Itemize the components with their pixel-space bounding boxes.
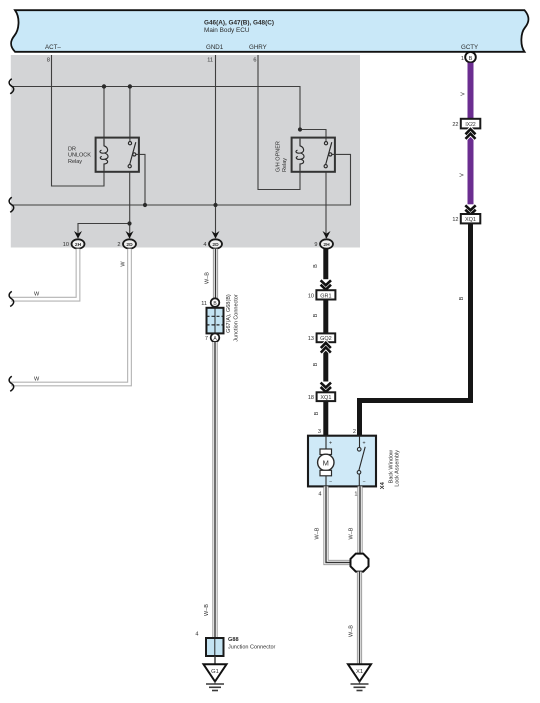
wire GHRY pin6 to GH relay coil [258, 55, 300, 190]
svg-text:2: 2 [117, 242, 120, 248]
wire ACT- pin8 to DR UNLOCK relay coil [52, 55, 105, 186]
svg-text:6: 6 [253, 58, 256, 64]
wire W-B X4 pin 4 to splice [326, 486, 350, 562]
svg-text:X1: X1 [356, 669, 363, 675]
svg-text:B: B [459, 296, 465, 300]
arrow into connector 9 [323, 231, 331, 239]
svg-text:W–B: W–B [205, 272, 211, 284]
ECU internal shield (gray area) [11, 55, 360, 248]
svg-text:Junction Connector: Junction Connector [233, 294, 239, 342]
svg-text:W–B: W–B [315, 527, 321, 539]
wire bus2 ground bus [11, 154, 351, 205]
wire W-B junction connector to G88 [212, 342, 217, 638]
wire bus1 drop to DR switch contact [129, 87, 131, 142]
connector 18 XQ1 [308, 392, 335, 401]
svg-text:B: B [313, 313, 319, 317]
svg-text:12: 12 [452, 217, 458, 223]
arrow into connector 10 [74, 231, 82, 239]
junction connector G88 [195, 632, 275, 657]
svg-text:W–B: W–B [349, 625, 355, 637]
svg-text:GCTY: GCTY [461, 44, 478, 51]
svg-text:9: 9 [314, 242, 317, 248]
node bus1/DR coil [102, 84, 106, 88]
connector 9 (2H) [320, 239, 333, 248]
node GND1/bus2 [213, 203, 217, 207]
svg-text:B: B [313, 264, 319, 268]
svg-text:GHRY: GHRY [249, 44, 267, 51]
svg-text:2H: 2H [75, 242, 82, 248]
svg-text:8: 8 [47, 58, 50, 64]
motor M [325, 436, 327, 449]
connector 22 IX22 [452, 119, 480, 129]
wire node to GH switch contact [300, 130, 326, 142]
svg-text:V: V [460, 173, 466, 177]
node DR output/bus2 [143, 203, 147, 207]
svg-text:Relay: Relay [282, 158, 288, 172]
chevron down above XQ1 (12) [464, 204, 478, 214]
connector 12 XQ1 [452, 214, 480, 223]
svg-text:Lock Assembly: Lock Assembly [395, 450, 401, 487]
svg-text:W: W [34, 292, 40, 298]
chevron up below GQ2 [321, 343, 331, 353]
arrow into connector 2 [126, 231, 134, 239]
svg-text:22: 22 [452, 122, 458, 128]
chevron down above GR1 [319, 279, 333, 290]
GCTY pin circle B [465, 52, 476, 63]
connector 13 GQ2 [308, 333, 335, 342]
svg-text:11: 11 [201, 301, 207, 307]
svg-text:DR: DR [68, 147, 76, 153]
node branch connector 10 [127, 221, 131, 225]
wire W from connector 10 [11, 249, 78, 299]
svg-text:2: 2 [353, 429, 356, 435]
break squiggle W wire lower [9, 376, 14, 391]
chevron up below IX22 [466, 129, 476, 139]
svg-text:10: 10 [308, 293, 314, 299]
wire W-B from connector 4 to junction connector [213, 249, 218, 298]
svg-text:W–B: W–B [204, 604, 210, 616]
svg-text:M: M [323, 458, 329, 467]
Main Body ECU band G46(A),G47(B),G48(C) [11, 10, 529, 52]
svg-text:10: 10 [63, 242, 69, 248]
svg-text:+: + [329, 441, 332, 447]
svg-text:13: 13 [308, 336, 314, 342]
node GH coil top [298, 127, 302, 131]
svg-text:X4: X4 [380, 481, 386, 489]
svg-text:1: 1 [354, 492, 357, 498]
svg-text:G/H OPNER: G/H OPNER [276, 141, 282, 172]
svg-text:Back Window: Back Window [388, 450, 394, 483]
svg-text:B: B [313, 362, 319, 366]
wire V GCTY to IX22 [468, 63, 474, 119]
wire V IX22 to XQ1 [468, 129, 474, 205]
break squiggle bus1 [9, 79, 14, 94]
svg-text:G67(A), G68(B): G67(A), G68(B) [226, 294, 232, 333]
svg-text:−: − [329, 479, 332, 485]
wire bus1 to relay tops [11, 87, 300, 130]
svg-text:B: B [469, 56, 473, 62]
ground G1 [204, 664, 227, 690]
node bus1/DR contact [128, 84, 132, 88]
svg-text:B: B [314, 411, 320, 415]
svg-text:Main Body ECU: Main Body ECU [204, 27, 250, 34]
svg-text:Relay: Relay [68, 159, 82, 165]
chevron down above XQ1 (18) [319, 382, 333, 393]
svg-text:7: 7 [205, 336, 208, 342]
svg-text:G46(A), G47(B), G48(C): G46(A), G47(B), G48(C) [204, 20, 274, 27]
wire GND1 pin11 down [215, 55, 217, 238]
svg-text:4: 4 [203, 242, 206, 248]
X4 Back Window Lock Assembly [308, 429, 401, 498]
svg-text:11: 11 [207, 58, 213, 64]
svg-text:1: 1 [461, 56, 464, 62]
svg-text:GND1: GND1 [206, 44, 224, 51]
arrow into connector 4 [212, 231, 220, 239]
break squiggle bus2 [9, 197, 14, 212]
connector 4 (2D) [209, 239, 222, 248]
wire W from connector 2 [11, 249, 130, 384]
svg-text:XQ1: XQ1 [320, 395, 331, 401]
relay DR UNLOCK [68, 138, 139, 172]
svg-text:W–B: W–B [349, 527, 355, 539]
svg-text:4: 4 [318, 492, 321, 498]
connector 10 GR1 [308, 290, 336, 299]
relay G/H OPNER [276, 138, 335, 172]
svg-text:+: + [363, 441, 366, 447]
svg-text:Junction Connector: Junction Connector [228, 645, 276, 651]
connector 10 (2H) [72, 239, 85, 248]
svg-text:18: 18 [308, 395, 314, 401]
ground X1 [348, 664, 371, 690]
svg-text:2D: 2D [212, 242, 219, 248]
wire DR switch output to bus2 [136, 154, 145, 205]
svg-text:−: − [363, 479, 366, 485]
break squiggle W wire upper [9, 291, 14, 306]
splice octagon [351, 554, 369, 572]
svg-text:ACT–: ACT– [45, 44, 61, 51]
svg-text:UNLOCK: UNLOCK [68, 153, 91, 159]
wire DR switch to connector 2 [129, 172, 131, 238]
connector 2 (2D) [123, 239, 136, 248]
svg-text:3: 3 [318, 429, 321, 435]
svg-text:G1: G1 [211, 669, 219, 675]
junction connector G67(A),G68(B) [201, 294, 239, 342]
lock switch [359, 436, 361, 448]
svg-text:V: V [461, 92, 467, 96]
svg-text:2D: 2D [126, 242, 133, 248]
thick B wire XQ1 to X4 pin 2 [360, 224, 471, 436]
svg-text:GR1: GR1 [320, 293, 331, 299]
wire branch to connector 10 [78, 224, 130, 239]
svg-text:4: 4 [195, 632, 198, 638]
wire W-B X4 pin 1 to splice [357, 486, 362, 554]
svg-text:W: W [34, 376, 40, 382]
svg-text:G88: G88 [228, 637, 239, 643]
wire W-B splice to ground X1 [357, 572, 362, 664]
thick B wire: connector 9 to X4 pin 3 [323, 248, 328, 436]
svg-text:XQ1: XQ1 [465, 217, 476, 223]
wire bus1 drop to DR coil top [103, 87, 105, 138]
svg-text:2H: 2H [323, 242, 330, 248]
svg-text:W: W [121, 261, 127, 267]
wire GH switch to connector 9 [325, 172, 327, 238]
wire G88 to ground [214, 656, 216, 664]
